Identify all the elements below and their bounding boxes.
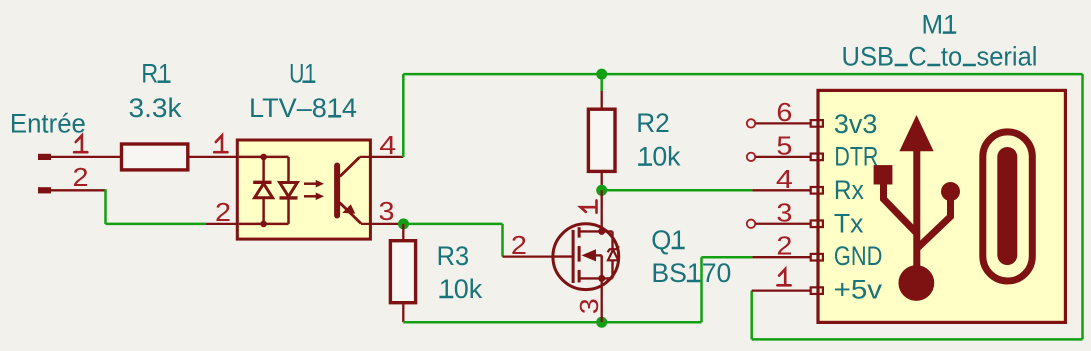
M1 USB trident big circle <box>898 265 934 301</box>
svg-text:3.3k: 3.3k <box>129 93 183 123</box>
U1 right diode vertical wire <box>287 157 290 224</box>
wire to U1 pin2 <box>106 223 207 226</box>
Q1 drain internal <box>579 230 612 232</box>
wire GND net: to M1 pin2 <box>702 256 753 259</box>
svg-text:GND: GND <box>834 241 883 271</box>
M1 pin 5 (DTR) <box>747 153 823 161</box>
Q1 source dot <box>598 275 605 282</box>
U1 phototransistor collector <box>340 157 360 176</box>
resistor R3 <box>390 224 415 322</box>
svg-text:2: 2 <box>73 162 89 192</box>
svg-text:R2: R2 <box>636 108 670 138</box>
svg-text:C: C <box>908 42 926 72</box>
transistor Q1 source pin <box>601 278 603 322</box>
wire +5v net: up from U1 pin4 <box>402 74 405 157</box>
M1 pin 3 (Tx) <box>747 220 823 228</box>
pin line U1 pin4 <box>360 156 404 158</box>
M1 USB trident right circle <box>941 182 960 201</box>
wire gate net: U1 pin3 to elbow <box>403 223 502 226</box>
M1 USB trident left branch <box>884 184 917 233</box>
svg-text:Tx: Tx <box>834 208 864 238</box>
value USB_C_to_serial <box>842 42 1038 72</box>
pin number 4 (U1) <box>379 130 396 160</box>
svg-text:+5v: +5v <box>834 275 883 305</box>
svg-text:5: 5 <box>776 130 792 160</box>
pin number 2 (U1 pin2) <box>215 197 231 227</box>
pin number 3 (U1) <box>379 196 395 226</box>
junction below Q1 <box>596 317 607 328</box>
svg-text:3: 3 <box>379 196 395 226</box>
svg-text:BS170: BS170 <box>651 258 731 288</box>
U1 phototransistor bar <box>334 166 340 216</box>
svg-text:2: 2 <box>215 197 231 227</box>
wire R2 top stub <box>600 74 603 92</box>
value 10k (R2) <box>638 142 681 172</box>
svg-text:4: 4 <box>776 164 793 194</box>
Q1 channel segments <box>578 227 581 282</box>
svg-text:Q1: Q1 <box>651 225 686 255</box>
U1 internal junction dot bottom <box>260 221 267 228</box>
value LTV-814 <box>249 93 357 123</box>
pin name DTR <box>834 142 878 172</box>
pin name 3v3 <box>834 109 878 139</box>
wire +5v net: top horizontal <box>403 73 1082 76</box>
M1 pin 4 (Rx) <box>752 187 823 194</box>
wire R1 to U1 <box>188 156 238 158</box>
wire Rx net: junction to M1 pin4 <box>602 189 753 192</box>
svg-text:3: 3 <box>574 298 604 314</box>
label R3 <box>437 241 470 271</box>
M1 USB trident right branch <box>918 199 951 248</box>
M1 USB-C connector inner bar <box>997 147 1017 265</box>
pin number 2 (Q1) <box>511 230 527 260</box>
pin name +5v <box>834 275 883 305</box>
svg-text:3v3: 3v3 <box>834 109 878 139</box>
pin line U1 pin2 <box>206 223 238 225</box>
M1 USB trident left square <box>874 165 893 184</box>
svg-text:4: 4 <box>379 130 396 160</box>
resistor R1 <box>122 144 188 170</box>
value 10k (R3) <box>439 274 483 304</box>
svg-text:serial: serial <box>976 42 1037 72</box>
svg-text:DTR: DTR <box>834 142 878 172</box>
M1 pin 2 (GND) <box>752 254 823 261</box>
U1 emission arrow upper <box>304 180 324 188</box>
U1 phototransistor emitter with arrow <box>340 203 362 224</box>
pin number 1 (R1 right / U1 pin1) <box>214 135 227 152</box>
svg-text:R1: R1 <box>141 59 171 89</box>
label Entrée <box>10 109 86 139</box>
connector Entrée pin stubs <box>38 157 51 190</box>
svg-text:3: 3 <box>776 197 792 227</box>
pin number 1 (Q1, rotated) <box>581 200 597 212</box>
U1 internal top rail <box>239 156 289 159</box>
wire +5v net: right vertical <box>1081 74 1084 339</box>
label M1 <box>922 10 958 40</box>
wire +5v net: up to M1 pin1 <box>750 291 753 340</box>
pin number 6 (M1) <box>776 97 792 127</box>
wire vertical down from Entrée pin2 <box>104 189 107 224</box>
opto-isolator U1 body <box>237 140 370 239</box>
Q1 gate plate <box>572 230 575 283</box>
Q1 substrate arrow <box>582 249 602 278</box>
label Q1 <box>651 225 686 255</box>
pin number 4 (M1) <box>776 164 793 194</box>
value BS170 <box>651 258 731 288</box>
junction top of R2 <box>596 69 607 80</box>
pin number 1 (Entrée) <box>74 135 87 152</box>
resistor R2 <box>588 91 615 190</box>
Q1 drain dot <box>598 228 605 235</box>
svg-text:U1: U1 <box>289 59 316 89</box>
label R2 <box>636 108 670 138</box>
Q1 gate internal line <box>553 255 573 257</box>
U1 internal bottom rail <box>239 223 289 226</box>
svg-text:R3: R3 <box>437 241 470 271</box>
pin line U1 pin3 <box>361 223 403 225</box>
pin number 2 (M1) <box>776 231 792 261</box>
svg-text:2: 2 <box>776 231 792 261</box>
svg-text:10k: 10k <box>439 274 483 304</box>
pin number 1 (M1) <box>777 269 790 285</box>
U1 internal junction dot top <box>260 154 267 161</box>
svg-text:LTV–814: LTV–814 <box>249 93 357 123</box>
pin name Rx <box>834 175 864 205</box>
wire +5v net: bottom horizontal <box>752 338 1083 341</box>
transistor Q1 gate pin <box>503 255 554 257</box>
pin number 3 (Q1, rotated) <box>574 298 604 314</box>
Q1 body diode <box>608 231 620 278</box>
svg-text:Entrée: Entrée <box>10 109 86 139</box>
module M1 body <box>818 90 1065 322</box>
transistor Q1 drain pin <box>601 190 603 231</box>
svg-text:Rx: Rx <box>834 175 864 205</box>
U1 right diode (pointing down) <box>280 183 298 198</box>
U1 left diode vertical wire <box>262 157 265 224</box>
svg-text:M1: M1 <box>922 10 958 40</box>
transistor Q1 body circle <box>553 224 619 290</box>
junction below R2 <box>596 185 607 196</box>
pin number 3 (M1) <box>776 197 792 227</box>
label U1 <box>289 59 316 89</box>
pin name GND <box>834 241 883 271</box>
M1 USB trident triangle <box>899 115 933 151</box>
wire GND net: bottom horizontal <box>403 321 701 324</box>
pin number 5 (M1) <box>776 130 792 160</box>
svg-text:USB: USB <box>842 42 895 72</box>
label R1 <box>141 59 171 89</box>
svg-text:to: to <box>941 42 962 72</box>
M1 pin 6 (3v3) <box>747 119 823 127</box>
wire Entrée pin2 horizontal <box>50 189 106 191</box>
wire Entrée pin1 to R1 <box>50 156 121 158</box>
svg-text:6: 6 <box>776 97 792 127</box>
pin number 2 (Entrée) <box>73 162 89 192</box>
svg-text:10k: 10k <box>638 142 681 172</box>
U1 left diode (pointing up) <box>253 182 272 197</box>
junction at U1 pin3 <box>398 218 409 229</box>
M1 USB-C connector outer ring <box>983 132 1033 281</box>
wire gate net: elbow down <box>501 224 504 257</box>
pin name Tx <box>834 208 864 238</box>
U1 emission arrow lower <box>304 193 324 201</box>
wire GND net: up right of Q1 <box>700 257 703 322</box>
M1 pin 1 (+5v) <box>752 287 823 294</box>
value 3.3k <box>129 93 183 123</box>
Q1 source internal <box>579 277 612 279</box>
M1 USB trident stem <box>913 151 920 267</box>
svg-text:2: 2 <box>511 230 527 260</box>
